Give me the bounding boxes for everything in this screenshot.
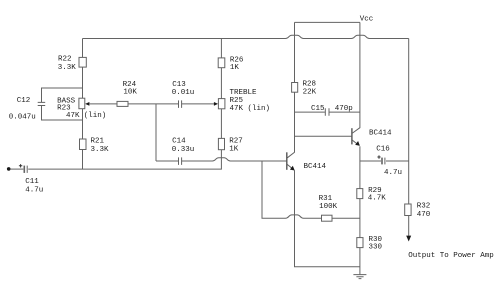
svg-text:10K: 10K: [123, 89, 137, 97]
svg-text:0.01u: 0.01u: [172, 89, 195, 97]
svg-text:Output To Power Amp: Output To Power Amp: [408, 252, 494, 260]
svg-text:R30: R30: [369, 236, 383, 244]
svg-text:C12: C12: [17, 97, 31, 105]
svg-text:47K: 47K: [66, 112, 80, 120]
svg-text:(lin): (lin): [84, 112, 107, 120]
svg-text:100K: 100K: [319, 203, 338, 211]
svg-text:4.7u: 4.7u: [384, 169, 402, 177]
svg-text:3.3K: 3.3K: [91, 146, 110, 154]
svg-text:C15: C15: [311, 105, 325, 113]
svg-text:1K: 1K: [229, 145, 239, 153]
svg-text:3.3K: 3.3K: [58, 64, 77, 72]
svg-text:BC414: BC414: [369, 129, 392, 137]
svg-text:R25: R25: [230, 97, 244, 105]
svg-text:BC414: BC414: [304, 163, 327, 171]
svg-text:C11: C11: [25, 178, 39, 186]
svg-text:4.7K: 4.7K: [368, 195, 387, 203]
svg-text:470: 470: [417, 211, 431, 219]
svg-text:R28: R28: [303, 81, 317, 89]
svg-text:4.7u: 4.7u: [25, 186, 43, 194]
svg-text:R21: R21: [91, 138, 105, 146]
svg-text:Vcc: Vcc: [360, 16, 374, 24]
svg-text:R29: R29: [368, 187, 382, 195]
svg-text:0.047u: 0.047u: [9, 113, 36, 121]
svg-text:C13: C13: [172, 81, 186, 89]
svg-text:0.33u: 0.33u: [172, 146, 195, 154]
svg-text:R22: R22: [58, 56, 72, 64]
svg-text:R27: R27: [229, 138, 243, 146]
svg-text:22K: 22K: [303, 88, 317, 96]
svg-text:C16: C16: [376, 146, 390, 154]
svg-text:47K (lin): 47K (lin): [230, 105, 271, 113]
svg-text:R31: R31: [319, 195, 333, 203]
svg-text:470p: 470p: [335, 105, 353, 113]
svg-text:C14: C14: [172, 138, 186, 146]
svg-text:1K: 1K: [230, 64, 240, 72]
svg-text:R23: R23: [57, 104, 71, 112]
svg-text:R32: R32: [417, 203, 431, 211]
svg-text:TREBLE: TREBLE: [230, 89, 258, 97]
svg-text:330: 330: [369, 244, 383, 252]
